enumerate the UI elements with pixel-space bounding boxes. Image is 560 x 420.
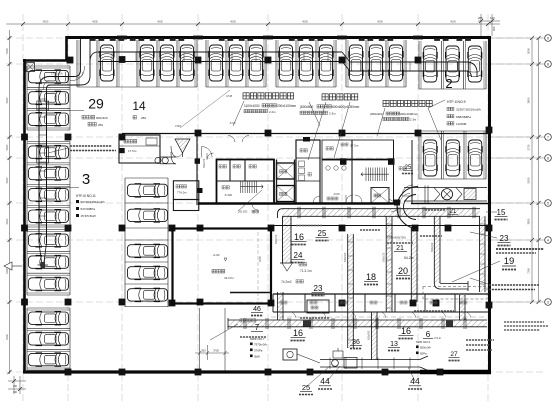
svg-text:4500: 4500 bbox=[450, 20, 456, 24]
elbow west run down to left column duct bbox=[39, 77, 50, 93]
svg-text:46: 46 bbox=[253, 306, 261, 313]
misc leaders center bbox=[238, 190, 262, 211]
svg-text:6: 6 bbox=[426, 330, 431, 339]
svg-text:(800x800: (800x800 bbox=[300, 105, 314, 109]
ramp lane lines bbox=[199, 308, 201, 371]
curb wall left of band bbox=[230, 292, 272, 294]
duct elbow down at left end bbox=[278, 209, 283, 218]
svg-text:630x320: 630x320 bbox=[344, 252, 347, 262]
bottom horizontal duct near wall bbox=[320, 359, 420, 361]
svg-text:20: 20 bbox=[398, 266, 408, 276]
leader lines 29 and 3 bbox=[47, 110, 84, 112]
svg-text:4500: 4500 bbox=[377, 20, 383, 24]
section marker left wall bbox=[4, 262, 12, 270]
svg-text:800: 800 bbox=[201, 349, 206, 353]
svg-text:18: 18 bbox=[366, 272, 376, 282]
top parking stalls bbox=[77, 86, 197, 88]
svg-text:600x600)x1050mm: 600x600)x1050mm bbox=[332, 105, 360, 109]
svg-text:668/368Pa: 668/368Pa bbox=[456, 115, 471, 119]
duct U-bend from fan to main duct bbox=[397, 187, 418, 229]
svg-text:16: 16 bbox=[294, 232, 304, 242]
left dimension line bbox=[9, 30, 11, 374]
duct branch down right mid bbox=[411, 228, 417, 302]
small fan unit bottom-left-center bbox=[283, 349, 297, 360]
storage room walls bbox=[173, 229, 272, 304]
svg-text:4500: 4500 bbox=[43, 20, 49, 24]
core tiny labels bbox=[219, 165, 222, 168]
header label 3 bbox=[383, 100, 389, 106]
svg-text:547/408Pa: 547/408Pa bbox=[81, 207, 96, 211]
bottom-left leader text bbox=[240, 319, 243, 322]
stair complex B bbox=[365, 168, 367, 182]
header3 leaders bbox=[377, 108, 385, 136]
top dimension line bbox=[6, 23, 500, 25]
svg-text:50728/34994m3/h: 50728/34994m3/h bbox=[81, 200, 106, 204]
svg-text:-5.400: -5.400 bbox=[224, 193, 232, 197]
svg-text:500m3/h: 500m3/h bbox=[420, 345, 431, 349]
svg-text:13: 13 bbox=[390, 341, 398, 348]
left parking column stalls bbox=[26, 66, 28, 130]
svg-text:44: 44 bbox=[410, 376, 420, 386]
right low text block bbox=[466, 339, 494, 341]
svg-text:12/40M: 12/40M bbox=[456, 122, 467, 126]
svg-text:7200: 7200 bbox=[527, 268, 531, 274]
wall: top exterior bbox=[66, 36, 491, 39]
duct branch down mid bbox=[386, 216, 392, 312]
svg-text:630x500: 630x500 bbox=[368, 330, 371, 340]
right parking stalls bbox=[419, 130, 486, 132]
right margin notes bbox=[496, 248, 544, 250]
header1 leaders bbox=[233, 101, 244, 126]
duct vertical mid-low bbox=[348, 234, 354, 348]
svg-text:16: 16 bbox=[293, 328, 303, 338]
svg-text:5000: 5000 bbox=[527, 48, 531, 54]
svg-text:SWF NO.3: SWF NO.3 bbox=[416, 340, 430, 344]
fittings mid bottom bbox=[333, 351, 343, 358]
structural columns bbox=[67, 57, 74, 64]
bottom-left dim marks bbox=[13, 376, 15, 394]
mid interior wall bbox=[122, 133, 489, 135]
bottom center dim bbox=[195, 352, 229, 354]
duct branch down right bbox=[434, 216, 440, 283]
svg-text:16: 16 bbox=[401, 326, 411, 336]
svg-text:281.823: 281.823 bbox=[238, 210, 248, 214]
svg-text:250: 250 bbox=[141, 116, 146, 120]
room band bottom wall bbox=[198, 202, 400, 204]
svg-text:24: 24 bbox=[294, 251, 303, 260]
svg-text:74.2m2: 74.2m2 bbox=[281, 280, 292, 284]
svg-text:3850: 3850 bbox=[527, 218, 531, 224]
svg-text:29: 29 bbox=[88, 96, 104, 112]
header2 leaders bbox=[308, 102, 326, 160]
storage room right dim bbox=[257, 232, 259, 300]
svg-text:4500: 4500 bbox=[302, 20, 308, 24]
svg-text:23: 23 bbox=[500, 234, 509, 243]
svg-text:21: 21 bbox=[450, 209, 457, 215]
svg-text:370Pa: 370Pa bbox=[254, 348, 263, 352]
svg-text:4748: 4748 bbox=[175, 124, 181, 128]
svg-text:3kW: 3kW bbox=[254, 354, 260, 358]
fan room upper-left-middle bbox=[119, 135, 160, 163]
hopper duct beside fan room bbox=[175, 139, 190, 153]
svg-text:5400: 5400 bbox=[5, 177, 9, 183]
svg-text:44: 44 bbox=[320, 376, 330, 386]
svg-text:HTF-III NO.11: HTF-III NO.11 bbox=[76, 194, 96, 198]
svg-text:500x720: 500x720 bbox=[383, 252, 386, 262]
svg-text:HTF-II NO.9: HTF-II NO.9 bbox=[447, 100, 466, 104]
svg-text:7575m3/h: 7575m3/h bbox=[254, 342, 267, 346]
small room labels bbox=[280, 301, 283, 304]
wall: bottom exterior bbox=[23, 370, 420, 373]
fan room small box bbox=[307, 300, 329, 313]
svg-text:190: 190 bbox=[13, 391, 18, 394]
svg-text:23: 23 bbox=[314, 284, 323, 293]
svg-text:-0.00: -0.00 bbox=[213, 253, 220, 257]
svg-text:2.3m: 2.3m bbox=[329, 112, 336, 116]
svg-text:7: 7 bbox=[547, 135, 549, 139]
svg-text:15.5/5.5kW: 15.5/5.5kW bbox=[81, 214, 96, 218]
svg-text:240: 240 bbox=[13, 385, 18, 388]
ceiling vent note bbox=[70, 145, 112, 147]
svg-text:54.2m: 54.2m bbox=[404, 256, 414, 260]
svg-text:5: 5 bbox=[547, 201, 549, 205]
svg-text:71.3.1m: 71.3.1m bbox=[300, 269, 312, 273]
grid axis lines bbox=[22, 14, 24, 402]
svg-text:5400: 5400 bbox=[5, 334, 9, 340]
svg-text:6: 6 bbox=[547, 156, 549, 160]
svg-text:200x1000mm: 200x1000mm bbox=[400, 112, 419, 116]
svg-text:900: 900 bbox=[492, 26, 496, 31]
corridor wall right of B bbox=[393, 140, 395, 204]
svg-text:2.2m: 2.2m bbox=[269, 110, 276, 114]
svg-text:5400: 5400 bbox=[5, 218, 9, 224]
thin wall y225 bbox=[272, 225, 490, 227]
svg-text:4.3.1r: 4.3.1r bbox=[434, 336, 441, 340]
wall: left exterior bbox=[23, 59, 26, 373]
svg-text:1000x400(700): 1000x400(700) bbox=[387, 236, 406, 240]
svg-text:5200: 5200 bbox=[527, 177, 531, 183]
svg-text:19: 19 bbox=[504, 256, 515, 267]
wc room block bbox=[296, 140, 320, 204]
core stair treads bbox=[240, 181, 242, 194]
dashed reservation outline bbox=[423, 287, 487, 300]
header label 1 bbox=[243, 93, 249, 99]
svg-text:SWF NO.7: SWF NO.7 bbox=[250, 337, 265, 341]
svg-text:36: 36 bbox=[352, 339, 360, 346]
svg-text:4: 4 bbox=[547, 238, 549, 242]
cars left column 1 bbox=[29, 70, 69, 83]
svg-text:21: 21 bbox=[396, 245, 404, 252]
svg-text:600x320: 600x320 bbox=[96, 116, 108, 120]
corridor double doors bbox=[202, 147, 212, 158]
left parking column 2 stalls bbox=[124, 178, 126, 307]
wall grille marks above stalls bbox=[90, 38, 96, 41]
cars in top band bbox=[100, 45, 114, 81]
duct along right wall bbox=[480, 216, 486, 292]
scattered tiny annotation rows bbox=[296, 225, 322, 227]
wall: right exterior bbox=[488, 36, 491, 373]
elevator shafts bbox=[277, 163, 295, 179]
bottom horizontal duct long run bbox=[228, 320, 487, 327]
svg-text:A748: A748 bbox=[226, 94, 233, 98]
svg-text:500x720: 500x720 bbox=[203, 158, 206, 168]
wall: top-left step bbox=[65, 36, 68, 61]
svg-text:250: 250 bbox=[98, 123, 103, 127]
fan room equip + col bbox=[120, 148, 125, 153]
vertical duct stub right of band bbox=[460, 295, 466, 320]
svg-text:27: 27 bbox=[450, 351, 458, 358]
small room door arcs bbox=[290, 312, 296, 318]
machine room with X bbox=[371, 188, 389, 204]
svg-text:500x720: 500x720 bbox=[275, 234, 278, 244]
silencer duct from fan room bbox=[160, 156, 176, 158]
small fan rooms left of core bbox=[173, 181, 198, 200]
svg-text:50Pa: 50Pa bbox=[420, 351, 427, 355]
core room outer walls bbox=[217, 160, 275, 204]
svg-text:32267/18216m3/h: 32267/18216m3/h bbox=[456, 108, 481, 112]
cars right parking bbox=[423, 140, 437, 176]
svg-text:77A.0m: 77A.0m bbox=[177, 191, 187, 195]
wall vent marks top bbox=[117, 36, 127, 40]
svg-text:2.3m: 2.3m bbox=[410, 118, 417, 122]
svg-text:5400: 5400 bbox=[5, 144, 9, 150]
cars left column 2 bbox=[128, 184, 168, 197]
jet duct run2 bbox=[350, 61, 468, 63]
svg-text:3: 3 bbox=[547, 300, 549, 304]
svg-text:9: 9 bbox=[547, 36, 549, 40]
vertical exhaust duct left bbox=[38, 92, 40, 243]
svg-text:100: 100 bbox=[490, 16, 495, 20]
mid room complex B bbox=[322, 140, 394, 204]
core partitions bbox=[229, 160, 231, 182]
right dimension line and grid bubbles bbox=[531, 38, 533, 302]
svg-text:2: 2 bbox=[445, 76, 452, 91]
svg-text:-0.00: -0.00 bbox=[333, 192, 340, 196]
svg-text:500x320: 500x320 bbox=[431, 242, 434, 252]
duct vertical at 374 bbox=[371, 312, 377, 360]
wall x197 bbox=[196, 134, 198, 206]
svg-text:14: 14 bbox=[132, 99, 146, 113]
svg-text:1100x1000: 1100x1000 bbox=[244, 104, 260, 108]
duct A fittings bbox=[303, 321, 311, 327]
bottom small rooms band bbox=[273, 293, 489, 295]
svg-text:37.5m: 37.5m bbox=[350, 144, 359, 148]
core door arcs bbox=[207, 153, 214, 160]
top-left riser duct from wall bbox=[80, 39, 82, 70]
elbow riser to west run bbox=[50, 70, 81, 77]
svg-text:5000: 5000 bbox=[258, 256, 262, 262]
vertical duct stub left of band bbox=[278, 292, 284, 320]
corridor door arc right of B bbox=[402, 185, 413, 196]
header label 2 bbox=[322, 94, 328, 100]
jet duct jog mid bbox=[342, 52, 350, 71]
svg-text:5400: 5400 bbox=[5, 48, 9, 54]
duct outlet bottom-left bbox=[38, 264, 49, 266]
svg-text:8: 8 bbox=[547, 62, 549, 66]
svg-text:1750x1100: 1750x1100 bbox=[51, 73, 63, 76]
beam dashed line above duct A bbox=[271, 316, 487, 318]
svg-text:15: 15 bbox=[497, 208, 506, 217]
svg-text:4500: 4500 bbox=[230, 20, 236, 24]
svg-text:2750: 2750 bbox=[527, 144, 531, 150]
svg-text:25: 25 bbox=[318, 229, 327, 238]
jet duct through top band run1 bbox=[98, 51, 342, 53]
svg-text:7: 7 bbox=[255, 323, 260, 332]
svg-text:3: 3 bbox=[82, 171, 90, 188]
svg-text:3700: 3700 bbox=[213, 349, 219, 353]
right wall leader notes bbox=[489, 284, 539, 286]
svg-text:4500: 4500 bbox=[157, 20, 163, 24]
shaft box top-left corner bbox=[26, 63, 35, 72]
svg-text:43.27m: 43.27m bbox=[224, 276, 235, 280]
right parking fan duct below bbox=[404, 187, 487, 189]
svg-text:17.5m: 17.5m bbox=[128, 149, 137, 153]
main supply duct horizontal bbox=[283, 209, 480, 217]
svg-text:4500: 4500 bbox=[92, 20, 98, 24]
svg-text:3600: 3600 bbox=[527, 97, 531, 103]
svg-text:(000x900: (000x900 bbox=[370, 112, 383, 116]
svg-text:5400: 5400 bbox=[5, 97, 9, 103]
svg-text:200x1100mm: 200x1100mm bbox=[277, 104, 296, 108]
